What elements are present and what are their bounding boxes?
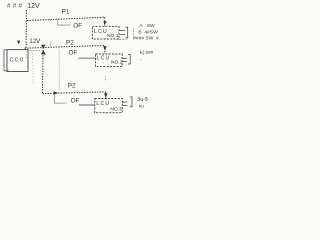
svg-text:B 4#SW: B 4#SW [138,29,158,35]
svg-text:P2: P2 [66,40,74,47]
svg-text:A SW: A SW [139,23,155,29]
svg-text:LCU: LCU [97,55,111,61]
svg-text:LCU: LCU [96,101,110,107]
svg-text:OF: OF [71,98,80,105]
svg-text:OF: OF [73,23,82,30]
svg-text:,: , [140,55,141,60]
svg-text:NO.2: NO.2 [111,59,123,65]
svg-text:12V: 12V [27,3,40,10]
svg-text:LCU: LCU [94,29,108,35]
svg-text:CCU: CCU [10,57,25,63]
svg-text:P2: P2 [68,82,76,89]
svg-text:#u: #u [139,103,145,108]
svg-text:P1: P1 [62,8,70,15]
svg-text:NO.1: NO.1 [107,33,119,39]
svg-text:12V: 12V [29,38,41,45]
svg-text:#### SW #: #### SW # [133,36,159,42]
svg-text:3u-5: 3u-5 [138,97,148,103]
svg-text:NO.3: NO.3 [110,107,122,113]
svg-text:###: ### [7,3,25,10]
svg-text:K) ###: K) ### [140,50,154,55]
svg-text:OF: OF [68,50,77,57]
